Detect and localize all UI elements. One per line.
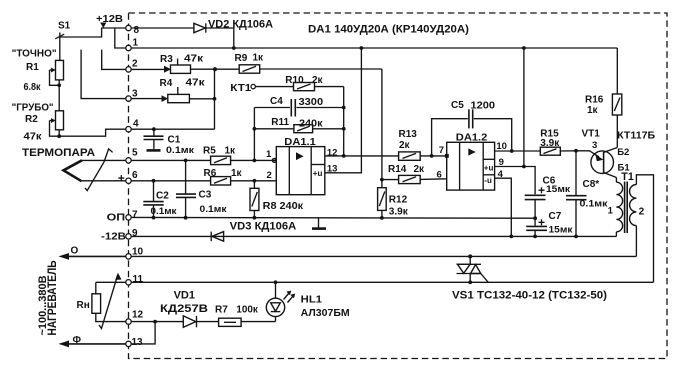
LED HL1 АЛ307БМ [266,282,349,321]
svg-text:3: 3 [132,89,138,100]
svg-text:8: 8 [134,25,140,36]
svg-text:2: 2 [132,59,138,70]
svg-text:6: 6 [437,170,442,181]
wire pin 12 row to VD1 [131,320,183,324]
svg-text:7: 7 [132,210,138,221]
svg-text:1: 1 [266,149,272,160]
svg-text:1к: 1к [225,146,237,157]
test point КТ1 [230,83,293,94]
resistor R7 100k [215,305,276,327]
svg-text:C3: C3 [199,189,212,200]
bus feedback vertical C4/R11 to pin 1 [253,108,257,163]
DA1 device dashed enclosure box [129,13,668,359]
svg-text:VT1: VT1 [582,128,601,139]
chip label DA1 140УД20А (КР140УД20А) [308,24,469,36]
pin 10 label DA1.2 [496,141,507,152]
heater Rн [77,273,126,329]
label ТЕРМОПАРА [22,147,95,159]
svg-text:Rн: Rн [77,300,90,311]
svg-text:1: 1 [608,206,614,217]
node pin 10 terminal [126,247,144,260]
svg-text:11: 11 [133,274,144,285]
svg-text:S1: S1 [58,21,71,32]
svg-text:R14: R14 [388,164,407,175]
wire pin 2 to R3 [131,68,170,70]
bus R9 down to R14/R12 node [381,69,383,180]
wire pin 4 row [131,127,214,131]
node pin 5 terminal [126,148,138,164]
svg-text:0.1мк: 0.1мк [200,204,227,215]
wire R2 wiper to pin 4 [59,129,126,136]
thermocouple + wire to pin 5 [82,159,126,161]
svg-text:КТ117Б: КТ117Б [617,130,655,141]
capacitor C7 15мк [526,211,573,236]
capacitor C6 15мк [525,176,571,221]
thermocouple symbol [64,149,113,191]
ground symbol on common rail [312,218,326,229]
capacitor C8* 0.1мк [566,151,608,237]
resistor R15 3.9k [540,128,578,155]
potentiometer R3 47k [160,54,239,74]
wire pin 3 to R4 [131,98,168,100]
svg-text:ОП: ОП [107,212,126,223]
resistor R13 2k [399,129,421,160]
svg-text:DA1.2: DA1.2 [456,131,488,143]
bus +12 rail drop to pin 9 [522,46,526,168]
svg-text:КД257В: КД257В [160,303,208,315]
wire pin 13 to +12 rail [325,46,364,173]
wire pin 10 to R15 [495,150,541,152]
resistor R8 240k [250,181,304,220]
svg-text:15мк: 15мк [546,184,570,195]
svg-text:2к: 2к [414,164,426,175]
unijunction transistor VT1 КТ117Б [576,128,655,182]
vertical label ~100...380В [37,275,49,335]
svg-text:C1: C1 [168,134,181,145]
diode VD2 КД106А [131,18,273,50]
svg-text:R2: R2 [25,114,38,125]
svg-text:2: 2 [639,207,645,218]
svg-text:5: 5 [132,148,138,159]
row 11 wire (triac cathode / gate return) [131,280,653,284]
svg-text:HL1: HL1 [301,295,323,306]
svg-text:R7: R7 [215,305,228,316]
wire pin 12 output to R13 and DA1.2 pin 7 [325,154,447,158]
capacitor C1 0.1мк [144,129,195,156]
node pin 13 terminal [126,337,143,348]
svg-text:13: 13 [132,337,144,348]
svg-text:0.1мк: 0.1мк [151,206,177,217]
svg-text:DA1 140УД20А (КР140УД20А): DA1 140УД20А (КР140УД20А) [308,24,469,36]
label -12В [101,232,126,243]
label ОП [107,212,126,223]
svg-text:R10: R10 [285,75,304,86]
svg-text:1к: 1к [231,168,243,179]
svg-text:R13: R13 [399,129,418,140]
op-amp DA1.1 [272,136,324,195]
svg-text:С8*: С8* [583,179,600,190]
S1 throw contact to pin 3 [81,50,126,99]
svg-text:R11: R11 [271,117,289,128]
pin 1 label DA1.1 [266,149,272,160]
svg-text:2к: 2к [312,75,324,86]
row 10 wire (triac anode) [131,254,636,258]
svg-text:10: 10 [496,141,507,152]
capacitor C4 3300 [254,96,343,117]
svg-text:4: 4 [133,119,139,130]
svg-text:6: 6 [132,170,138,181]
potentiometer R4 47k [160,78,217,103]
svg-text:R12: R12 [389,195,408,206]
svg-text:R4: R4 [160,78,173,89]
ground symbol under C1 [147,149,161,152]
capacitor C5 1200 [432,100,514,156]
svg-text:R1: R1 [26,62,39,73]
potentiometer R2 47k [24,111,64,143]
label "ГРУБО" [12,103,54,114]
pin 9 label DA1.2 [499,157,504,168]
wire pin 4 to -12 rail [495,178,512,236]
label "ТОЧНО" [12,49,57,60]
S1 throw contact to pin 2 [102,50,126,70]
svg-text:-u: -u [484,176,492,185]
svg-text:12: 12 [327,147,338,158]
svg-text:2: 2 [267,170,272,181]
wire pin 11 to Rн [96,281,126,283]
node pin 8 terminal [126,25,140,36]
svg-text:R5: R5 [203,146,216,157]
+12В supply label and arrow [96,14,123,28]
svg-text:100к: 100к [236,305,258,316]
bus R3/R4 junction down to row 4 [214,69,216,129]
common rail ОП (pin 7 row) [131,216,535,219]
svg-text:R8 240к: R8 240к [263,201,305,212]
diode VD3 КД106А [211,221,296,242]
svg-text:47к: 47к [184,54,204,65]
svg-text:1: 1 [133,38,139,49]
node pin 12 terminal [126,310,144,325]
svg-text:АЛ307БМ: АЛ307БМ [301,308,350,319]
-12V rail (pin 9 row) [131,235,616,239]
svg-text:О: О [71,246,79,257]
svg-text:-12В: -12В [101,232,126,243]
svg-text:47к: 47к [24,132,43,143]
svg-text:R3: R3 [160,54,173,65]
svg-text:3300: 3300 [299,97,324,108]
svg-text:47к: 47к [186,78,206,89]
svg-text:Б2: Б2 [617,147,629,158]
svg-text:"ГРУБО": "ГРУБО" [12,103,54,114]
potentiometer R1 6.8k [24,60,64,110]
svg-text:ТЕРМОПАРА: ТЕРМОПАРА [22,147,95,159]
wire pin 13 riser to row 12 [131,322,155,344]
svg-text:9: 9 [132,228,138,239]
resistor R16 1k [585,48,622,148]
svg-text:12: 12 [132,310,144,321]
resistor R10 2k [285,75,343,91]
bus output node vertical (R10/C4/R11 to pin 12) [342,87,346,158]
svg-text:C4: C4 [270,96,283,107]
output O arrow (to heater) [59,246,126,260]
svg-text:2к: 2к [399,140,411,151]
pin 13 label DA1.1 [327,164,338,175]
svg-text:КТ1: КТ1 [230,83,252,94]
svg-text:"ТОЧНО": "ТОЧНО" [12,49,57,60]
capacitor C3 0.1мк [176,160,227,219]
node pin 2 terminal [126,59,138,73]
+12V supply rail (top) [129,47,618,49]
transformer T1 [608,171,654,282]
svg-text:1к: 1к [253,53,265,64]
op-amp DA1.2 [445,131,495,190]
output Ф arrow (phase) [59,335,126,347]
pin 2 label DA1.1 [267,170,272,181]
triac VS1 ТС132-40-12 [452,256,607,301]
resistor R9 1k [235,53,382,74]
resistor R12 3.9k [378,180,409,220]
resistor R14 2k [380,164,447,184]
svg-text:C2: C2 [156,191,169,202]
svg-text:VD3 КД106А: VD3 КД106А [230,221,297,233]
svg-text:7: 7 [439,145,444,156]
svg-text:Т1: Т1 [621,171,634,183]
svg-text:C5: C5 [451,100,464,111]
node pin 3 terminal [126,89,138,102]
svg-text:6.8к: 6.8к [24,82,42,93]
svg-text:+u: +u [313,169,323,178]
resistor R5 1k [203,146,276,165]
capacitor C2 0.1мк [143,181,176,220]
node pin 4 terminal [126,119,139,132]
svg-text:15мк: 15мк [549,225,573,236]
node pin 6 terminal [126,170,138,184]
svg-text:1200: 1200 [471,100,496,111]
wire pin 6 row to R6 [131,179,210,183]
thermocouple - wire to pin 6 with + mark [82,175,126,181]
wire pin 5 row to R5 [131,159,210,163]
pin 4 label DA1.2 [498,169,504,180]
switch S1 [55,21,126,61]
svg-text:3.9к: 3.9к [389,207,409,218]
svg-text:НАГРЕВАТЕЛЬ: НАГРЕВАТЕЛЬ [47,261,59,336]
svg-text:3: 3 [592,140,597,151]
diode VD1 КД257В [160,290,219,328]
node pin 1 terminal [126,38,139,51]
resistor R11 240k [254,117,343,133]
node pin 7 terminal [126,210,138,221]
wire pin 9 to C6 [495,167,535,195]
vertical label НАГРЕВАТЕЛЬ [47,261,59,336]
svg-text:C7: C7 [549,211,562,222]
svg-text:+u: +u [484,164,494,173]
node pin 11 terminal [126,274,144,285]
node pin 9 terminal [126,228,138,239]
pin 12 label DA1.1 [327,147,338,158]
svg-text:+12В: +12В [96,14,123,25]
svg-text:0.1мк: 0.1мк [166,145,194,156]
svg-text:1к: 1к [587,105,599,116]
resistor R6 1k [204,168,277,185]
pin 7 label DA1.2 [439,145,444,156]
svg-text:R9: R9 [235,53,248,64]
svg-text:VS1 ТС132-40-12 (ТС132-50): VS1 ТС132-40-12 (ТС132-50) [452,289,607,301]
svg-text:VD1: VD1 [174,290,195,302]
pin 6 label DA1.2 [437,170,442,181]
